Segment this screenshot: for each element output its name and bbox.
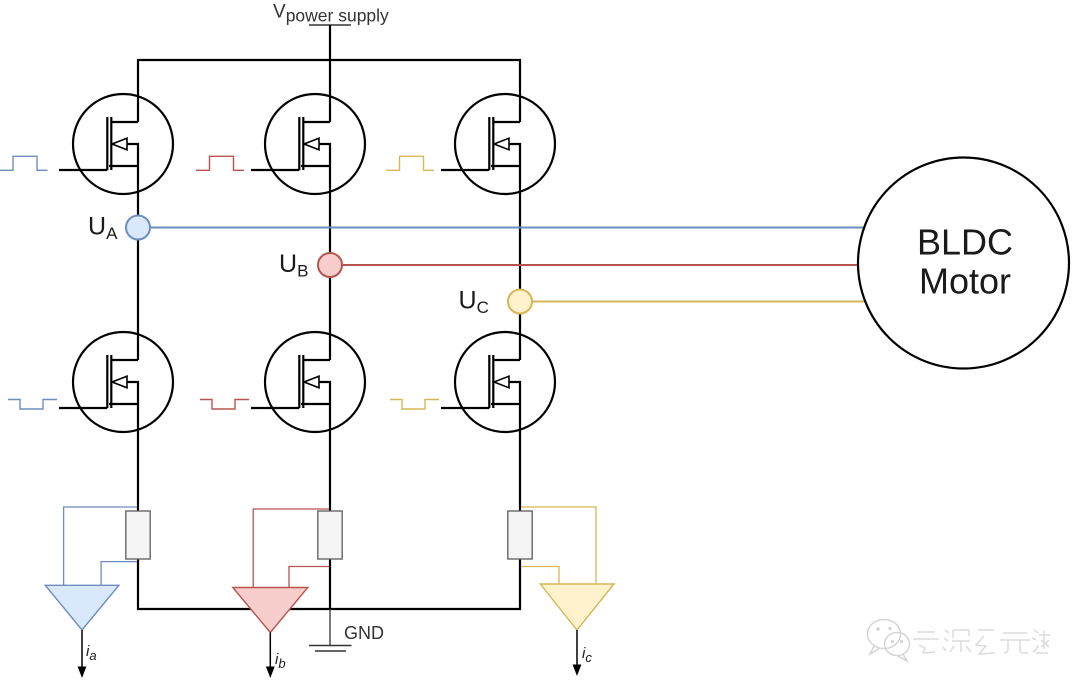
gate pulse low-side B (red, inverted) <box>200 400 249 410</box>
output arrow ic <box>576 630 578 666</box>
shunt resistor phase A <box>126 511 150 559</box>
gate pulse high-side A (blue) <box>0 156 48 170</box>
ground symbol <box>309 645 352 647</box>
svg-text:ia: ia <box>86 643 97 663</box>
wire: column C mid <box>519 166 521 360</box>
transistor Q1 high-side phase A <box>59 94 173 194</box>
power supply terminal bar <box>309 24 351 26</box>
transistor Q3 high-side phase B <box>251 94 365 194</box>
transistor Q4 low-side phase B <box>251 332 365 432</box>
gate pulse high-side B (red) <box>196 156 244 170</box>
wire: column A mid <box>137 166 139 360</box>
wire: column B mid <box>329 166 331 360</box>
svg-text:ib: ib <box>275 651 286 671</box>
sense wire A+ (blue) <box>64 507 137 585</box>
sense wire C+ (yellow) <box>521 507 596 584</box>
wire: ground stem <box>329 609 331 645</box>
transistor Q5 high-side phase C <box>441 94 555 194</box>
amplifier B (red) <box>233 588 308 633</box>
wire: column C bottom <box>519 404 521 610</box>
watermark text sketch <box>913 630 1050 654</box>
wire: bottom rail <box>137 608 521 610</box>
sense wire B- (red) <box>289 567 329 588</box>
amplifier A (blue) <box>45 585 119 630</box>
output arrow ia <box>81 630 83 668</box>
svg-text:UC: UC <box>459 287 489 318</box>
shunt resistor phase C <box>508 511 532 559</box>
node UA (blue) <box>126 216 150 240</box>
shunt resistor phase B <box>318 511 342 559</box>
wire: column B drain (top) <box>329 60 331 122</box>
svg-text:UB: UB <box>279 250 308 281</box>
transistor Q2 low-side phase A <box>59 332 173 432</box>
svg-text:BLDC: BLDC <box>917 222 1013 263</box>
wire: supply stem <box>329 25 331 61</box>
node UB (red) <box>318 253 342 277</box>
svg-text:ic: ic <box>582 645 592 665</box>
svg-text:Motor: Motor <box>919 261 1011 302</box>
wire: column C drain (top) <box>519 60 521 122</box>
gate pulse low-side C (yellow, inverted) <box>390 400 439 410</box>
sense wire C- (yellow) <box>521 567 559 585</box>
gate pulse low-side A (blue, inverted) <box>8 400 57 410</box>
amplifier C (yellow) <box>540 584 614 630</box>
sense wire A- (blue) <box>101 562 137 585</box>
sense wire B+ (red) <box>253 509 329 588</box>
node UC (yellow) <box>508 290 532 314</box>
svg-text:UA: UA <box>88 213 118 244</box>
wire: phase A to motor (blue) <box>138 227 870 229</box>
wire: phase C to motor (yellow) <box>520 301 874 303</box>
svg-text:Vpower supply: Vpower supply <box>273 2 389 26</box>
BLDC motor <box>858 158 1069 369</box>
wire: phase B to motor (red) <box>330 264 870 266</box>
svg-text:GND: GND <box>344 623 384 643</box>
watermark icon (chat bubbles) <box>868 620 910 662</box>
gate pulse high-side C (yellow) <box>386 156 434 170</box>
output arrow ib <box>269 633 271 669</box>
wire: column A drain (top) <box>137 60 139 122</box>
wire: column B bottom <box>329 404 331 610</box>
transistor Q6 low-side phase C <box>441 332 555 432</box>
wire: column A bottom <box>137 404 139 610</box>
wire: top rail <box>137 59 521 61</box>
